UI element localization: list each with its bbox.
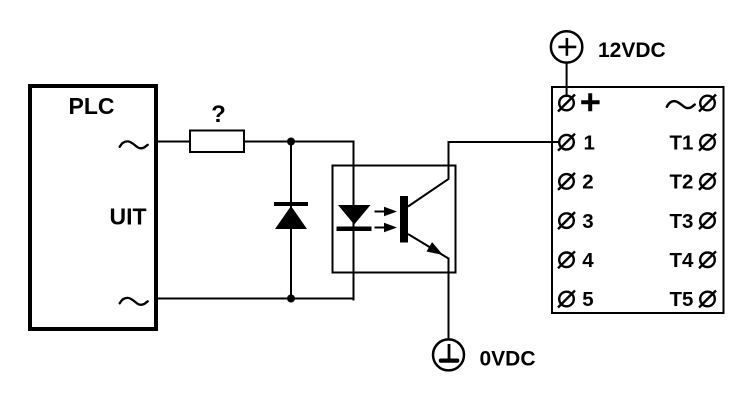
svg-text:PLC: PLC (69, 93, 115, 119)
svg-text:T4: T4 (670, 249, 695, 272)
svg-text:4: 4 (582, 249, 594, 272)
svg-text:T5: T5 (670, 288, 694, 311)
svg-text:0VDC: 0VDC (480, 348, 536, 371)
svg-text:12VDC: 12VDC (598, 39, 666, 62)
svg-text:T1: T1 (670, 131, 694, 154)
svg-text:?: ? (211, 101, 226, 128)
svg-text:3: 3 (582, 210, 593, 233)
svg-text:T3: T3 (670, 210, 694, 233)
svg-text:UIT: UIT (109, 204, 146, 230)
svg-text:T2: T2 (670, 171, 694, 194)
svg-text:2: 2 (582, 171, 593, 194)
svg-text:1: 1 (584, 131, 595, 154)
svg-text:5: 5 (582, 288, 593, 311)
